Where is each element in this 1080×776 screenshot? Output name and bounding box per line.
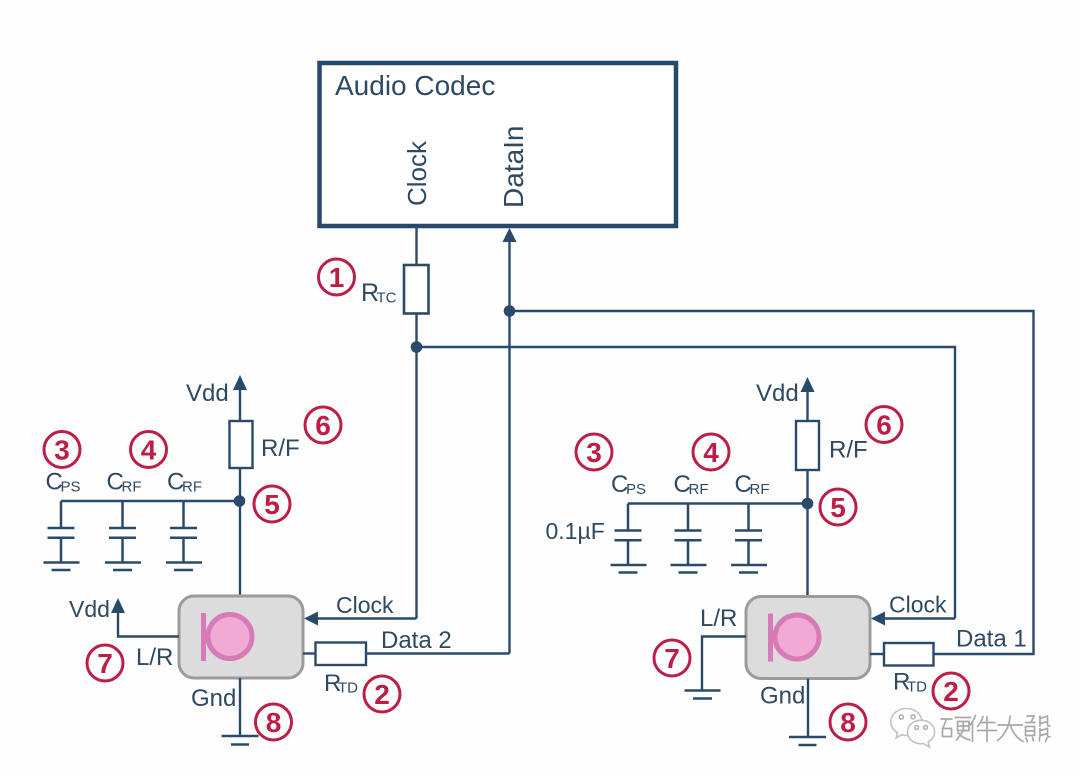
ground symbol right mic [789,736,826,739]
circled 2 left [364,676,400,712]
char ying [941,718,971,741]
circled 5 left [254,486,290,522]
resistor R_TD right [884,643,934,666]
svg-text:R/F: R/F [261,435,300,462]
wire capacitor bus left [61,500,240,502]
watermark text 硬件大熊 (drawn strokes) [941,716,1050,742]
circled 1 [319,259,355,295]
svg-text:Data 2: Data 2 [381,627,452,654]
svg-text:Vdd: Vdd [69,596,110,622]
wire mic to R_TD right [870,653,884,655]
svg-text:Vdd: Vdd [186,380,229,407]
wire mic to ground right [807,679,809,738]
svg-text:7: 7 [97,648,113,679]
circled 7 left [87,645,123,681]
junction data node [504,305,516,317]
capacitor C_RF left a [105,501,141,570]
wire R_TC down to clock junction and on to left mic level [415,314,417,619]
svg-text:1: 1 [329,262,345,293]
circled 8 right [830,704,866,740]
wire L/R to ground right [702,637,746,691]
char xiong [1026,716,1051,742]
watermark logo eyes [899,715,927,730]
svg-text:Data 1: Data 1 [956,626,1027,653]
svg-text:6: 6 [876,410,892,441]
resistor R_TC [404,265,429,314]
circled 3 left [44,432,80,468]
wire mic to R_TD left [303,652,316,654]
svg-text:L/R: L/R [136,644,173,671]
svg-text:Clock: Clock [336,592,394,618]
node 5 dot right [802,498,814,510]
circled 6 left [305,407,341,443]
microphone MIC1 icon bar [768,614,773,662]
resistor R_TD left [316,643,367,666]
svg-text:RF: RF [182,479,202,496]
svg-text:4: 4 [141,435,157,466]
svg-text:6: 6 [315,410,331,441]
wire R/F to mic top [239,468,241,596]
svg-text:3: 3 [54,435,70,466]
circled 8 left [256,704,292,740]
svg-text:8: 8 [266,707,282,738]
wire mic to ground left [239,678,241,736]
microphone MIC1 icon circle [775,615,819,659]
svg-text:TD: TD [338,680,358,697]
svg-text:RF: RF [689,481,709,498]
wire R/F to mic top right [806,470,808,597]
audio codec box U1 [320,63,677,226]
svg-text:RF: RF [750,481,770,498]
svg-text:2: 2 [374,679,390,710]
svg-text:R/F: R/F [829,437,868,464]
wire DataIn vertical with up arrow [508,239,510,654]
microphone MIC2 icon bar [201,613,206,661]
svg-text:0.1µF: 0.1µF [546,518,605,544]
svg-text:7: 7 [664,643,680,674]
capacitor C_RF right a [671,504,707,573]
svg-text:L/R: L/R [700,605,737,632]
circled 3 right [576,434,612,470]
capacitor C_PS right [611,504,647,573]
Vdd arrow [239,387,241,421]
svg-text:Clock: Clock [889,592,947,618]
junction clock node [411,341,423,353]
char jian [969,716,997,742]
svg-text:2: 2 [943,676,959,707]
svg-text:DataIn: DataIn [498,126,529,209]
circled 7 right [654,640,690,676]
wire capacitor bus right [628,502,808,504]
microphone MIC2 icon circle [208,615,252,659]
capacitor C_PS left [44,501,80,570]
resistor R/F right [796,421,819,470]
svg-text:Vdd: Vdd [756,380,799,407]
wire data branch to right mic [510,311,1034,654]
node 5 dot left [234,495,246,507]
svg-text:PS: PS [61,479,81,496]
circled 2 right [933,673,969,709]
resistor R/F left [230,421,253,468]
svg-text:TC: TC [377,290,397,307]
svg-text:Clock: Clock [402,140,432,206]
circled 5 right [820,489,856,525]
microphone MIC1 body [746,597,870,679]
ground symbol L/R right [685,689,721,692]
wire clock into left mic [315,617,417,619]
Vdd side arrow + wire into mic [118,610,179,637]
char da [998,716,1024,742]
ground symbol left mic [222,735,259,738]
capacitor C_RF right b [731,504,767,573]
svg-text:Gnd: Gnd [760,683,805,710]
svg-text:5: 5 [264,489,280,520]
wire codec Clock pin down to R_TC [415,226,417,265]
circled 6 right [866,407,902,443]
wire clock into right mic [882,617,955,619]
wire clock branch to right [417,347,956,619]
svg-text:RF: RF [122,479,142,496]
watermark logo bubble big [891,708,922,737]
svg-text:Gnd: Gnd [191,685,236,712]
svg-text:5: 5 [830,492,846,523]
microphone MIC2 body [179,596,303,678]
svg-text:TD: TD [907,679,927,696]
capacitor C_RF left b [166,501,202,570]
circled 4 left [131,432,167,468]
svg-text:PS: PS [626,481,646,498]
circled 4 right [693,434,729,470]
svg-text:3: 3 [586,437,602,468]
watermark logo bubble small [907,720,934,747]
svg-text:8: 8 [840,707,856,738]
svg-text:Audio Codec: Audio Codec [335,70,495,101]
Vdd arrow right [806,389,808,421]
wire data2 from left R_TD [366,652,510,654]
svg-text:4: 4 [703,437,719,468]
